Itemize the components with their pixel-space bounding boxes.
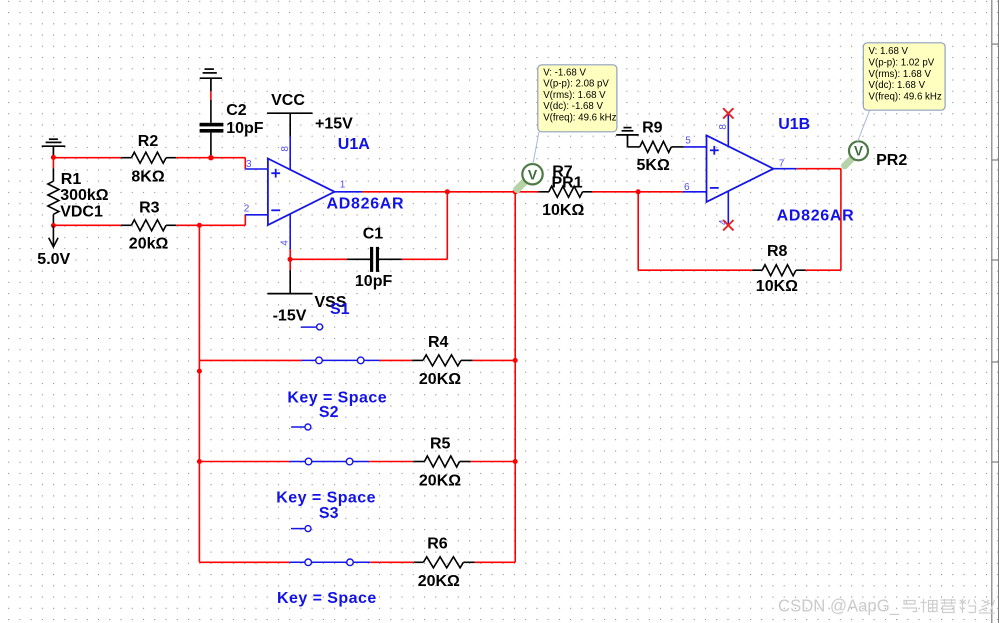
switch S1 pole — [301, 324, 323, 330]
wire (switch S1 to R4) — [380, 359, 412, 361]
note box PR2 readings — [863, 43, 945, 110]
svg-text:V: V — [528, 166, 538, 182]
wire (left rail to switch S3) — [199, 561, 289, 563]
junction (left rail top node) — [197, 223, 202, 228]
wire (right rail, PR1 node down to R6 branch) — [514, 192, 516, 563]
leader line (PR1 note) — [533, 132, 539, 164]
svg-text:10pF: 10pF — [355, 273, 393, 290]
leader line (PR2 note) — [858, 110, 870, 141]
wire (R1 top node to R2) — [53, 157, 121, 159]
wire (switch S3 to R6) — [370, 561, 414, 563]
svg-text:V(p-p): 2.08 pV: V(p-p): 2.08 pV — [543, 79, 609, 90]
svg-text:10KΩ: 10KΩ — [756, 278, 798, 295]
svg-text:10pF: 10pF — [226, 120, 264, 137]
svg-text:8KΩ: 8KΩ — [131, 168, 164, 185]
junction (right rail at R4 branch) — [513, 358, 518, 363]
svg-text:V: 1.68 V: V: 1.68 V — [869, 46, 909, 57]
svg-text:CSDN @AapG_: CSDN @AapG_ — [778, 596, 899, 617]
power VSS -15V — [268, 270, 347, 324]
junction (C1 left node) — [288, 257, 293, 262]
switch S3 pole — [291, 526, 311, 532]
wire (R6 to right rail) — [475, 561, 515, 563]
junction (C2 node) — [208, 155, 213, 160]
value label R3 20kΩ — [129, 200, 169, 253]
ground (R9) — [616, 128, 639, 147]
svg-text:V(freq): 49.6 kHz: V(freq): 49.6 kHz — [869, 92, 942, 103]
svg-text:8: 8 — [718, 124, 729, 130]
op-amp U1B AD826AR — [707, 135, 797, 202]
wire (R1 top node to R1) — [52, 157, 54, 168]
wire (R1 bottom node to R3) — [53, 224, 121, 226]
wire (left rail, R3 node down to R6 branch) — [198, 225, 200, 562]
resistor R3 20kΩ — [121, 220, 176, 231]
resistor R6 20KΩ — [414, 557, 475, 568]
svg-text:V: V — [854, 144, 863, 159]
wire (C1 to output node) — [402, 192, 448, 259]
junction (R1 bottom node) — [51, 223, 56, 228]
value label R2 8KΩ — [131, 133, 164, 186]
svg-text:R1: R1 — [61, 171, 82, 188]
svg-text:S1: S1 — [330, 301, 350, 318]
svg-text:V(p-p): 1.02 pV: V(p-p): 1.02 pV — [869, 57, 935, 68]
wire (R8 up to U1B pin 7) — [797, 169, 841, 271]
value label R9 5KΩ — [637, 120, 670, 174]
svg-text:R5: R5 — [430, 436, 451, 453]
source arrow 5.0V — [37, 226, 70, 268]
svg-text:PR1: PR1 — [552, 174, 583, 191]
svg-text:R3: R3 — [139, 200, 160, 217]
svg-text:6: 6 — [684, 182, 690, 193]
svg-text:5KΩ: 5KΩ — [637, 157, 670, 174]
svg-text:V(rms): 1.68 V: V(rms): 1.68 V — [543, 90, 606, 101]
svg-text:8: 8 — [280, 146, 291, 152]
svg-text:4: 4 — [280, 240, 291, 246]
svg-text:-15V: -15V — [273, 308, 307, 325]
svg-text:AD826AR: AD826AR — [777, 208, 855, 225]
svg-text:AD826AR: AD826AR — [327, 196, 405, 213]
value label C1 10pF — [355, 225, 393, 289]
value label R5 20KΩ — [419, 436, 461, 490]
svg-text:V(freq): 49.6 kHz: V(freq): 49.6 kHz — [543, 113, 616, 124]
wire (C1 left node to C1) — [290, 258, 347, 260]
capacitor C1 10pF (feedback) — [347, 247, 402, 272]
svg-text:VDC1: VDC1 — [60, 204, 103, 221]
svg-text:U1B: U1B — [778, 116, 810, 133]
svg-text:300kΩ: 300kΩ — [60, 187, 109, 204]
value label R4 20KΩ — [419, 334, 461, 388]
svg-text:5: 5 — [685, 135, 691, 146]
svg-text:V(dc): -1.68 V: V(dc): -1.68 V — [543, 101, 603, 112]
svg-text:S3: S3 — [319, 505, 339, 522]
svg-text:PR2: PR2 — [876, 152, 907, 169]
resistor R1 300kΩ (VDC1) — [48, 168, 59, 225]
svg-text:V(rms): 1.68 V: V(rms): 1.68 V — [869, 69, 932, 80]
svg-text:2: 2 — [244, 204, 250, 215]
svg-text:C2: C2 — [226, 102, 247, 119]
junction (left rail at R5 branch) — [197, 459, 202, 464]
probe PR1 (voltage) — [517, 164, 543, 189]
svg-text:5.0V: 5.0V — [37, 251, 70, 268]
svg-text:7: 7 — [779, 158, 785, 169]
wire (R4 to right rail) — [473, 359, 516, 361]
svg-text:+15V: +15V — [315, 116, 353, 133]
wire (R7 to U1B pin 6) — [592, 191, 707, 193]
resistor R5 20KΩ — [413, 456, 470, 467]
resistor R8 10KΩ — [753, 265, 806, 276]
wire (U1A output to R7) — [362, 191, 538, 193]
junction (R1 top node) — [51, 155, 56, 160]
svg-text:U1A: U1A — [338, 136, 370, 153]
wire (ground to C2) — [210, 91, 212, 100]
svg-text:C1: C1 — [363, 225, 384, 242]
svg-text:3: 3 — [246, 159, 252, 170]
resistor R4 20KΩ — [412, 355, 473, 366]
svg-text:Key = Space: Key = Space — [277, 590, 377, 607]
ground (above C2) — [200, 69, 222, 91]
svg-text:10KΩ: 10KΩ — [542, 202, 584, 219]
value label R7 / probe label PR1 / 10KΩ — [542, 164, 584, 220]
note box PR1 readings — [538, 65, 617, 132]
svg-text:S2: S2 — [319, 404, 339, 421]
probe PR2 (voltage) — [845, 141, 908, 169]
wire (U1B pin 4 stub) + no-connect X — [723, 192, 733, 231]
wire (left rail to switch S1) — [199, 359, 301, 361]
wire (U1B pin 6 node down to R8) — [638, 192, 752, 270]
wire (R5 to right rail) — [471, 461, 516, 463]
svg-text:R9: R9 — [642, 120, 663, 137]
svg-text:R2: R2 — [138, 133, 159, 150]
resistor R7 10KΩ — [538, 186, 592, 197]
svg-text:20KΩ: 20KΩ — [419, 472, 461, 489]
svg-text:1: 1 — [340, 180, 346, 191]
wire (U1B pin 8 stub) + no-connect X — [723, 108, 733, 146]
wire (U1A pin 4 to VSS) — [289, 214, 291, 270]
resistor R2 8KΩ — [121, 152, 176, 163]
svg-text:VCC: VCC — [271, 92, 305, 109]
junction (U1B pin 6 node) — [636, 189, 641, 194]
value label R8 10KΩ — [756, 243, 798, 295]
svg-text:20KΩ: 20KΩ — [418, 573, 460, 590]
svg-text:R4: R4 — [428, 334, 449, 351]
switch S2 contacts (R5 branch) — [289, 458, 369, 465]
capacitor C2 10pF — [200, 100, 224, 158]
switch S1 contacts (R4 branch) — [301, 357, 379, 364]
value label R1 300kΩ VDC1 — [60, 171, 109, 221]
svg-text:R8: R8 — [767, 243, 788, 260]
junction (PR1 node) — [513, 189, 518, 194]
value label C2 10pF — [226, 102, 264, 137]
wire (switch S2 to R5) — [369, 461, 413, 463]
wire (R2 to U1A pin 3 corner) — [176, 158, 245, 169]
wire (R3 to U1A pin 2 corner) — [176, 215, 245, 226]
switch S3 contacts (R6 branch) — [289, 559, 370, 566]
junction (left rail at R4 branch) — [197, 369, 202, 374]
resistor R9 5KΩ — [628, 141, 684, 152]
svg-text:Key = Space: Key = Space — [276, 489, 376, 506]
power VCC +15V — [267, 92, 353, 136]
ground (input divider, left of R1) — [42, 139, 66, 157]
wire (VCC to U1A pin 8) — [289, 136, 291, 170]
junction (right rail at R5 branch) — [513, 459, 518, 464]
op-amp U1A AD826AR — [245, 159, 362, 226]
wire (R9 to U1B pin 5) — [684, 146, 707, 148]
svg-text:20KΩ: 20KΩ — [419, 371, 461, 388]
svg-text:R6: R6 — [427, 536, 448, 553]
switch S2 pole — [291, 424, 311, 430]
svg-text:V(dc): 1.68 V: V(dc): 1.68 V — [869, 80, 926, 91]
svg-text:V: -1.68 V: V: -1.68 V — [543, 67, 586, 78]
wire (left rail to switch S2) — [199, 461, 289, 463]
junction (U1A output node) — [445, 189, 450, 194]
value label R6 20KΩ — [418, 536, 460, 591]
svg-text:20kΩ: 20kΩ — [129, 235, 169, 252]
watermark CSDN — [778, 596, 995, 617]
